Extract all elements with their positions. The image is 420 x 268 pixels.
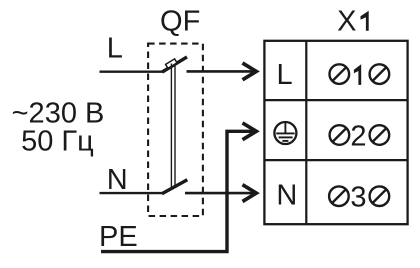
terminal 1 number [354,64,361,85]
wire PE to X1 terminal 2 with arrow [101,123,256,252]
terminal block X1 outline [264,41,407,224]
wire L to X1 terminal 1 with arrow [187,63,257,80]
breaker QF mechanical linkage [171,64,175,188]
svg-text:3: 3 [350,182,366,214]
svg-text:L: L [277,59,293,91]
terminal 1 screw left [330,64,350,84]
svg-text:N: N [107,164,128,196]
terminal block X1 row divider 2 [264,159,407,161]
breaker QF pole 2 blade [162,180,187,194]
wire N to X1 terminal 3 with arrow [185,185,256,202]
breaker QF pole 1 blade [162,57,187,72]
wire N input [100,192,163,194]
breaker QF dashed outline [148,44,203,216]
terminal 2 screw left [330,125,350,145]
svg-text:N: N [276,179,297,211]
svg-text:50 Гц: 50 Гц [21,125,94,157]
svg-text:L: L [107,33,123,65]
terminal 1 screw right [370,64,390,84]
svg-text:PE: PE [99,221,138,253]
terminal 3 screw right [370,186,390,206]
svg-text:X: X [337,6,356,38]
protective earth symbol [274,122,296,144]
breaker QF automatic-trip rectangle [166,59,177,68]
terminal block X1 column divider [305,41,307,224]
supply label ~230 V 50 Hz [12,97,105,157]
wire L input [100,70,164,72]
svg-text:QF: QF [160,5,200,37]
terminal block X1 row divider 1 [264,99,407,101]
terminal 3 screw left [329,186,349,206]
svg-text:2: 2 [350,120,366,152]
terminal block X1 label [337,6,369,38]
terminal 2 screw right [370,125,390,145]
